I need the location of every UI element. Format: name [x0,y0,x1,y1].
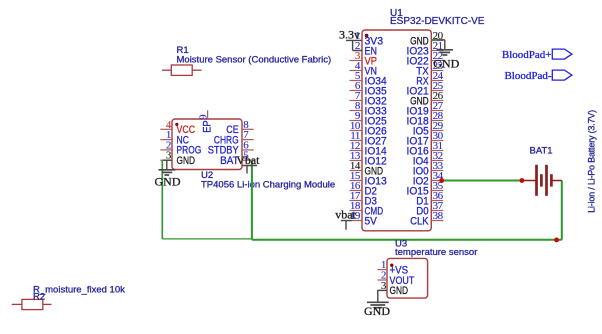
pin 12 (IO14) U1 [350,140,387,157]
junction bottom near battery [554,238,559,243]
ic U1 ESP32-DEVKITC-VE body [362,30,431,231]
wire 3.3v jumper pins 1-2 U1 [346,40,362,50]
wire bottom left segment [162,238,252,240]
svg-text:BloodPad-: BloodPad- [504,70,551,82]
wire bottom main segment [252,239,562,241]
battery BAT1 [522,165,562,196]
wire IO2 pin 34 to BAT1 [443,180,522,182]
pin 15 (IO13) U1 [350,170,387,187]
svg-text:38: 38 [433,210,444,222]
pin 14 (GND) U1 [350,160,384,177]
junction at BAT1 positive [520,178,525,183]
svg-text:vbat: vbat [335,208,356,222]
pin 31 (IO16) U1 [407,140,444,157]
pin 33 (IO0) U1 [413,160,444,177]
svg-text:EP: EP [201,120,213,132]
pin 2 (EN) U1 [355,40,377,57]
wire U3 pin3 to ground [378,290,387,302]
wire Vbat leader [243,166,258,174]
pin 21 (IO23) U1 [407,40,444,57]
wire U2 BAT pin down [251,161,253,240]
wire U2 pin3 to ground and bottom bus [162,160,172,239]
pin 1 marker dot U3 [390,264,393,267]
pin 25 (IO21) U1 [407,80,444,97]
wire GND from pin 20 [432,40,445,50]
svg-text:temperature sensor: temperature sensor [395,247,477,258]
svg-text:Moisture Sensor (Conductive Fa: Moisture Sensor (Conductive Fabric) [177,55,332,66]
pin 1 marker dot U2 [175,123,178,126]
pin 3 (VP) U1 [350,50,377,67]
pin 8 (IO33) U1 [350,100,387,117]
pin 22 (IO22) U1 [407,50,444,67]
pin 4 (VN) U1 [350,60,377,77]
pin 10 (IO26) U1 [350,120,387,137]
svg-text:9: 9 [197,114,209,120]
pin 19 (5V) U1 [350,210,378,227]
pin 20 (GND) U1 [410,30,444,47]
pin 11 (IO27) U1 [350,130,387,147]
svg-text:GND: GND [390,285,409,297]
wire battery negative drop [561,181,563,240]
ground symbol near U3 [367,302,389,307]
svg-text:GND: GND [177,155,196,167]
pin 16 (D2) U1 [350,180,377,197]
pin 28 (IO18) U1 [407,110,444,127]
svg-text:Li-ion / Li-Po Battery (3.7V): Li-ion / Li-Po Battery (3.7V) [587,110,597,213]
svg-text:BAT1: BAT1 [530,146,553,157]
svg-text:R_moisture_fixed 10k: R_moisture_fixed 10k [33,284,125,295]
junction at pin 34 [439,178,444,183]
resistor R2 [12,299,52,309]
pin 5 (IO34) U1 [350,70,387,87]
ground symbol near U2 [159,160,176,175]
pin 1 (NC) U2 [160,129,189,146]
pin 9 (IO25) U1 [350,110,387,127]
svg-text:GND: GND [364,304,390,318]
pin 26 (GND) U1 [410,90,444,107]
pin 5 (BAT) U2 [220,150,254,167]
resistor R1 [162,65,202,75]
pin 6 (STDBY) U2 [208,139,254,156]
pin 8 (CE) U2 [226,119,253,136]
svg-text:5V: 5V [365,215,378,227]
pin 1 (+VS) U3 [378,259,409,276]
pin 2 (VOUT) U3 [378,270,415,287]
pin 24 (RX) U1 [416,70,443,87]
svg-text:BloodPad+: BloodPad+ [502,49,552,61]
svg-text:R2: R2 [33,292,45,303]
svg-text:GND: GND [433,57,459,71]
wire vbat leader [341,221,352,230]
pin 18 (CMD) U1 [350,200,384,217]
pin 17 (D3) U1 [350,190,377,207]
pin 27 (IO19) U1 [407,100,444,117]
pin 29 (IO5) U1 [413,120,444,137]
pin 23 (TX) U1 [416,60,443,77]
pin 34 (IO2) U1 [413,170,444,187]
svg-text:ESP32-DEVKITC-VE: ESP32-DEVKITC-VE [390,16,485,27]
pin 35 (IO15) U1 [407,180,444,197]
ic U3 temperature sensor body [387,258,428,298]
pin 3 (GND) U2 [160,150,195,167]
hierarchical label BloodPad+ [502,49,572,61]
pin 3 (GND) U3 [378,280,409,297]
svg-text:CLK: CLK [410,215,429,227]
ground symbol near U1 pin 20 [437,50,453,55]
pin 4 (VCC) U2 [160,119,195,136]
pin 13 (IO12) U1 [350,150,387,167]
pin 38 (CLK) U1 [410,210,444,227]
ic U2 TP4056 body [172,119,242,170]
svg-text:3.3v: 3.3v [339,28,360,42]
svg-text:GND: GND [155,174,181,188]
pin 32 (IO4) U1 [413,150,444,167]
pin 1 (3V3) U1 [355,30,383,47]
pin 9 (EP) U2 top [197,110,213,133]
pin 37 (D0) U1 [416,200,443,217]
pin 36 (D1) U1 [416,190,443,207]
pin 1 marker dot U1 [365,34,369,38]
pin 6 (IO35) U1 [350,80,387,97]
pin 7 (CHRG) U2 [214,129,254,146]
pin 30 (IO17) U1 [407,130,444,147]
pin 2 (PROG) U2 [160,139,201,156]
pin 7 (IO32) U1 [350,90,387,107]
svg-text:TP4056 Li-ion Charging Module: TP4056 Li-ion Charging Module [201,180,335,191]
hierarchical label BloodPad- [504,70,571,82]
